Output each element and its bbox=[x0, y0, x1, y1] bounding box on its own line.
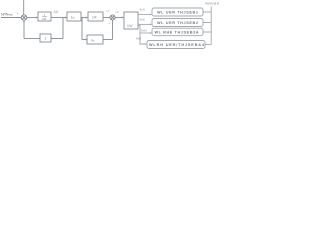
svg-text:UW: UW bbox=[127, 24, 133, 28]
node label Uc after S2 bbox=[115, 10, 119, 14]
wire UW to controller row 2 bbox=[138, 23, 151, 25]
svg-text:WL RHE THJSEB3A: WL RHE THJSEB3A bbox=[155, 31, 199, 35]
svg-text:ks: ks bbox=[92, 38, 96, 42]
block controller row 4 bbox=[147, 41, 205, 49]
svg-text:Nt*/Nmax: Nt*/Nmax bbox=[1, 12, 13, 16]
wire outer feedback down from S1 bbox=[23, 21, 25, 38]
svg-text:+: + bbox=[108, 22, 110, 26]
svg-text:Iref3: Iref3 bbox=[141, 29, 147, 33]
block G1 fraction bar bbox=[42, 16, 47, 18]
svg-text:ΔM: ΔM bbox=[42, 17, 47, 21]
wire riser up into S2 bbox=[112, 20, 114, 39]
arrowhead into row 2 bbox=[150, 24, 152, 26]
block H1 bbox=[40, 34, 51, 42]
node label U* bbox=[107, 9, 111, 13]
block G1 bbox=[38, 12, 51, 21]
wire G1 to block G2 bbox=[51, 17, 66, 19]
node output label RHUS8 bbox=[206, 2, 219, 6]
arrowhead left into H1 bbox=[52, 38, 54, 39]
svg-text:Iref2: Iref2 bbox=[140, 18, 146, 22]
arrowhead into G1 bbox=[36, 17, 38, 19]
node plus sign at summing junction S1 bbox=[16, 12, 18, 16]
svg-text:Iref1: Iref1 bbox=[140, 8, 146, 12]
node input label N*/Nmax bbox=[1, 12, 13, 16]
svg-text:ΔU: ΔU bbox=[54, 10, 59, 14]
block row 1 text bbox=[157, 11, 198, 15]
wire output bus bbox=[210, 7, 212, 45]
svg-text:U*: U* bbox=[107, 9, 111, 13]
arrowhead up into S1 bbox=[23, 20, 25, 22]
wire branch to controller row 3 bbox=[140, 32, 151, 34]
block row 3 text bbox=[155, 31, 199, 35]
wire row 2 to bus bbox=[203, 22, 211, 24]
node takeoff T1 bbox=[62, 17, 63, 18]
node label Iref3 bbox=[141, 29, 147, 33]
svg-text:I: I bbox=[45, 37, 47, 41]
wire inner branch down from T2 bbox=[81, 18, 83, 40]
svg-text:Uc: Uc bbox=[115, 10, 119, 14]
wire row 3 to bus bbox=[203, 31, 211, 33]
arrowhead into H2 bbox=[86, 39, 88, 41]
svg-text:kw: kw bbox=[71, 15, 75, 19]
block UW bbox=[124, 12, 138, 29]
arrowhead into row 3 bbox=[150, 32, 152, 34]
block H2 bbox=[87, 35, 103, 44]
summing junction S1 bbox=[21, 15, 26, 20]
block controller row 2 bbox=[152, 19, 203, 27]
node takeoff T2 bbox=[82, 17, 83, 18]
wire input left bbox=[1, 17, 21, 19]
block row 4 text bbox=[149, 43, 205, 47]
block row 2 text bbox=[157, 21, 198, 25]
wire G2 to block G3 bbox=[81, 17, 87, 19]
summing junction S2 bbox=[110, 15, 115, 20]
wire inner branch to H2 bbox=[82, 39, 87, 41]
node label Iref4 bbox=[136, 37, 142, 41]
block G1 value label bbox=[42, 13, 47, 21]
wire UW to controller row 1 bbox=[138, 13, 151, 15]
arrowhead into row 1 bbox=[150, 14, 152, 16]
block controller row 3 bbox=[152, 28, 203, 36]
arrowhead into G2 bbox=[65, 17, 67, 19]
svg-text:+: + bbox=[16, 12, 18, 16]
wire top input bbox=[23, 0, 25, 14]
block G3 value label bbox=[92, 15, 98, 19]
arrowhead into UW bbox=[122, 17, 124, 19]
block G3 bbox=[88, 12, 103, 21]
wire S1 to block G1 bbox=[27, 17, 37, 19]
wire outer feedback bottom left bbox=[24, 38, 40, 40]
block controller row 1 bbox=[152, 8, 203, 16]
wire takeoff T1 down bbox=[62, 18, 64, 39]
svg-text:RHUS8: RHUS8 bbox=[206, 2, 219, 6]
svg-text:1/K: 1/K bbox=[92, 15, 98, 19]
wire H1 to takeoff bbox=[51, 38, 63, 40]
svg-text:WLRH UER/THJSEBA4: WLRH UER/THJSEBA4 bbox=[149, 43, 205, 47]
node label Iref1 bbox=[140, 8, 146, 12]
node plus sign at S2 bbox=[108, 22, 110, 26]
arrowhead into row 4 bbox=[145, 43, 147, 45]
node label dU bbox=[54, 10, 59, 14]
wire UW drop for rows 3 and 4 bbox=[138, 26, 146, 45]
block G2 bbox=[67, 12, 81, 21]
wire H2 to riser bbox=[103, 39, 113, 41]
svg-text:WL UER THJSEB1: WL UER THJSEB1 bbox=[157, 11, 198, 15]
wire row 1 to bus bbox=[203, 11, 211, 13]
block H2 value label bbox=[92, 38, 96, 42]
block H1 value label bbox=[45, 37, 47, 41]
wire G3 to summing junction S2 bbox=[103, 17, 110, 19]
svg-text:Iref4: Iref4 bbox=[136, 37, 142, 41]
svg-text:1: 1 bbox=[44, 13, 46, 17]
node label Iref2 bbox=[140, 18, 146, 22]
block UW value label bbox=[127, 24, 133, 28]
wire S2 to block UW bbox=[115, 17, 123, 19]
wire row 4 to bus bbox=[205, 44, 211, 46]
arrowhead into G3 bbox=[86, 17, 88, 19]
svg-text:WL UER THJSEB2: WL UER THJSEB2 bbox=[157, 21, 198, 25]
node top input tick bbox=[20, 4, 21, 8]
svg-text:-: - bbox=[20, 4, 21, 8]
block G2 value label bbox=[71, 15, 75, 19]
